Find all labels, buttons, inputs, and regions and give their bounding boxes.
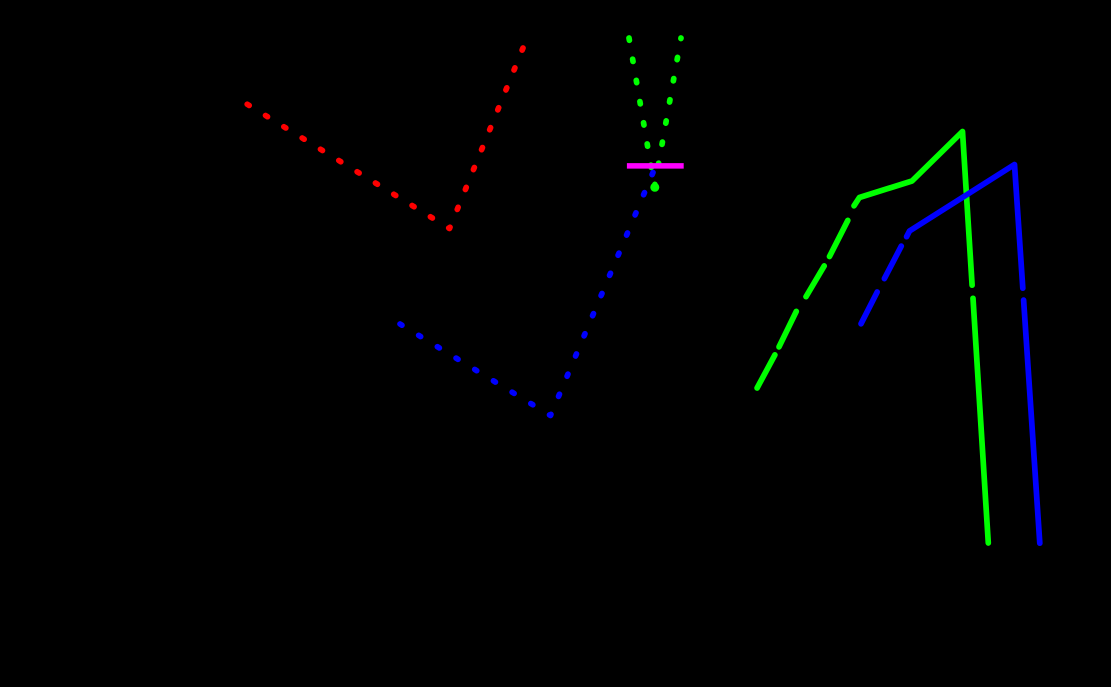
green dotted narrow V [629,38,681,187]
blue dashed curve: dash 1 [861,292,877,324]
green dashed curve: dash 4 [830,220,848,256]
red dotted V curve [246,48,523,229]
blue dashed curve: final descent [1024,300,1040,543]
green dashed curve: dash 2 [779,311,796,347]
green dashed curve: dash 1 [757,355,775,388]
green vertex dot [650,183,659,192]
green dashed curve: final descent [973,298,988,543]
green dashed curve: dash 3 [806,266,824,297]
green dashed curve: long run over peak [854,132,972,286]
magenta horizontal segment [627,163,684,169]
blue dashed curve: long run over peak [907,165,1023,289]
blue dotted V curve [400,173,653,416]
blue dashed curve: dash 2 [884,246,901,279]
